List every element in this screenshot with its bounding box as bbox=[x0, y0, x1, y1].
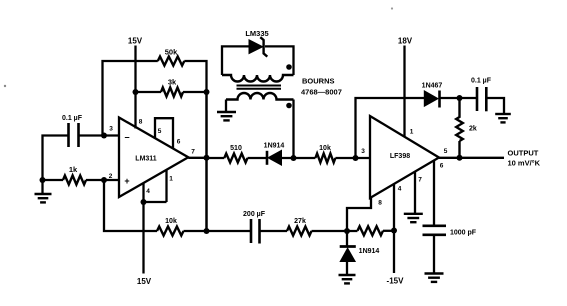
svg-text:3: 3 bbox=[109, 126, 113, 133]
svg-text:6: 6 bbox=[440, 163, 444, 170]
wire diode to drive node bbox=[282, 157, 316, 159]
svg-text:3: 3 bbox=[361, 148, 365, 155]
resistor 10k (series) bbox=[315, 154, 335, 163]
wire 50k left to input node bbox=[103, 61, 158, 136]
node 3k/15V junction bbox=[133, 89, 139, 95]
wire input node up to rectifier bbox=[356, 98, 425, 158]
wire cap right to pin3 node bbox=[79, 134, 120, 136]
op-amp U1 LM311 body bbox=[119, 118, 188, 198]
svg-text:−: − bbox=[124, 133, 129, 143]
pin 6 wire LF398 (hold cap) bbox=[433, 160, 435, 226]
svg-text:BOURNS: BOURNS bbox=[302, 77, 335, 86]
wire secondary left to ground bbox=[225, 100, 227, 112]
svg-text:1k: 1k bbox=[69, 165, 78, 174]
pin 7 wire LF398 (logic ref) bbox=[414, 172, 416, 213]
wire LM311 output bbox=[188, 157, 206, 159]
wire output rail (x=207) bbox=[205, 92, 208, 231]
wire secondary right down to drive node bbox=[292, 100, 294, 159]
svg-text:-15V: -15V bbox=[387, 277, 405, 286]
wire 1k right bbox=[86, 179, 119, 181]
resistor 510 bbox=[224, 154, 247, 163]
phase dot secondary bbox=[286, 103, 292, 109]
svg-text:LM335: LM335 bbox=[245, 29, 268, 38]
wire filter cap to ground bbox=[486, 98, 504, 113]
svg-text:510: 510 bbox=[230, 145, 242, 152]
svg-text:1: 1 bbox=[410, 129, 414, 136]
svg-text:+: + bbox=[124, 176, 129, 186]
wire pin4 to negative supply bbox=[142, 202, 144, 274]
transformer T1 primary winding bbox=[222, 75, 294, 82]
transformer T1 secondary winding bbox=[226, 93, 294, 100]
resistor 2k bbox=[456, 98, 463, 158]
node ground-rail/1k junction bbox=[40, 177, 46, 183]
wire 1k left bbox=[43, 179, 64, 181]
node LM311 output bbox=[204, 155, 210, 161]
svg-text:8: 8 bbox=[139, 119, 143, 126]
svg-text:1: 1 bbox=[169, 176, 173, 183]
svg-text:10k: 10k bbox=[319, 145, 331, 152]
pin 4 wire LM311 bbox=[142, 183, 144, 202]
svg-text:2k: 2k bbox=[469, 126, 477, 133]
wire cap left to ground rail bbox=[43, 136, 69, 181]
resistor (unlabeled, to -15V) bbox=[358, 226, 384, 235]
wire pin1-pin4 tie bar bbox=[144, 201, 167, 203]
pin 1 wire LM311 bbox=[165, 170, 167, 202]
svg-text:50k: 50k bbox=[165, 48, 178, 57]
resistor 10k (feedback) bbox=[157, 227, 184, 236]
wire 510 to diode bbox=[248, 157, 267, 159]
resistor 3k bbox=[161, 88, 183, 97]
node output junction bbox=[457, 155, 463, 161]
node LM311 pin 2 input bbox=[101, 177, 107, 183]
ground (filter cap) bbox=[495, 113, 511, 115]
phase dot primary bbox=[286, 64, 292, 70]
pin 5/6 balance staple LM311 bbox=[155, 118, 173, 148]
node rectifier output bbox=[457, 95, 463, 101]
svg-text:1N467: 1N467 bbox=[422, 83, 443, 90]
wire pin2 node down to bottom row bbox=[104, 180, 157, 231]
wire 200uF to 27k bbox=[260, 230, 288, 232]
node LF398 input bbox=[353, 155, 359, 161]
resistor 50k bbox=[158, 57, 185, 66]
node pin4/-15V junction bbox=[391, 228, 397, 234]
svg-text:1N914: 1N914 bbox=[264, 143, 285, 150]
svg-text:5: 5 bbox=[444, 148, 448, 155]
node clamp junction bbox=[344, 228, 350, 234]
svg-text:10 mV/°K: 10 mV/°K bbox=[508, 159, 541, 168]
capacitor 1000 pF (hold) bbox=[423, 225, 447, 228]
resistor 27k bbox=[287, 227, 312, 236]
svg-text:LF398: LF398 bbox=[390, 153, 410, 160]
wire output node to 510 bbox=[207, 157, 225, 159]
svg-text:0.1 µF: 0.1 µF bbox=[62, 115, 83, 122]
wire 27k to clamp node bbox=[312, 230, 358, 232]
resistor 1k bbox=[63, 176, 86, 185]
svg-text:27k: 27k bbox=[294, 218, 306, 225]
svg-text:5: 5 bbox=[158, 128, 162, 135]
svg-text:2: 2 bbox=[109, 173, 113, 180]
svg-text:7: 7 bbox=[191, 149, 195, 156]
node transformer drive bbox=[291, 155, 297, 161]
node LM311 pin 3 input bbox=[101, 133, 107, 139]
wire 3k left bbox=[136, 91, 162, 93]
ground (input network) bbox=[35, 193, 52, 195]
wire primary loop top-right bbox=[265, 46, 294, 75]
wire 10k to rail node bbox=[184, 230, 251, 232]
wire 3k right bbox=[183, 91, 207, 93]
ground (transformer secondary) bbox=[217, 111, 236, 113]
svg-text:10k: 10k bbox=[165, 218, 177, 225]
svg-text:0.1 µF: 0.1 µF bbox=[471, 78, 492, 85]
svg-text:6: 6 bbox=[177, 139, 181, 146]
svg-text:15V: 15V bbox=[137, 277, 152, 286]
wire 1N467 to node bbox=[440, 97, 477, 99]
wire ground stem left bbox=[41, 180, 43, 193]
svg-text:LM311: LM311 bbox=[135, 156, 157, 163]
ground (clamp diode) bbox=[339, 274, 356, 276]
svg-text:8: 8 bbox=[378, 200, 382, 207]
svg-text:4768—8007: 4768—8007 bbox=[301, 88, 342, 97]
diode 1N914 (clamp, pointing up) bbox=[346, 231, 348, 246]
pin 4 wire LF398 (-15V) bbox=[393, 184, 395, 273]
node 3k/output-rail junction bbox=[204, 89, 210, 95]
svg-text:7: 7 bbox=[418, 177, 422, 184]
svg-text:4: 4 bbox=[398, 186, 402, 193]
svg-text:1N914: 1N914 bbox=[359, 248, 380, 255]
svg-text:3k: 3k bbox=[168, 78, 177, 87]
svg-text:18V: 18V bbox=[398, 37, 413, 46]
svg-text:OUTPUT: OUTPUT bbox=[508, 149, 539, 158]
svg-text:15V: 15V bbox=[128, 37, 143, 46]
pin 8 wire LF398 (logic in) bbox=[347, 198, 371, 231]
op-amp U2 LF398 body bbox=[370, 116, 439, 198]
wire 50k right to output rail bbox=[184, 61, 206, 92]
node pin4 tie junction bbox=[141, 199, 147, 205]
ground (LF398 pin 7) bbox=[404, 213, 423, 215]
transformer T1 core bbox=[237, 85, 282, 87]
wire primary loop top-left bbox=[222, 46, 249, 75]
wire 10k to LF398 pin 3 bbox=[335, 157, 370, 159]
wire LF398 output bbox=[439, 157, 504, 159]
svg-text:200 µF: 200 µF bbox=[243, 211, 266, 218]
ground (hold cap) bbox=[425, 272, 444, 274]
wire resistor to pin4 rail bbox=[383, 230, 394, 232]
node output-rail/bottom-row junction bbox=[204, 228, 210, 234]
svg-text:4: 4 bbox=[146, 188, 150, 195]
svg-text:1000 pF: 1000 pF bbox=[450, 230, 477, 237]
wire 15V rail to LM311 pin 8 bbox=[134, 92, 136, 129]
